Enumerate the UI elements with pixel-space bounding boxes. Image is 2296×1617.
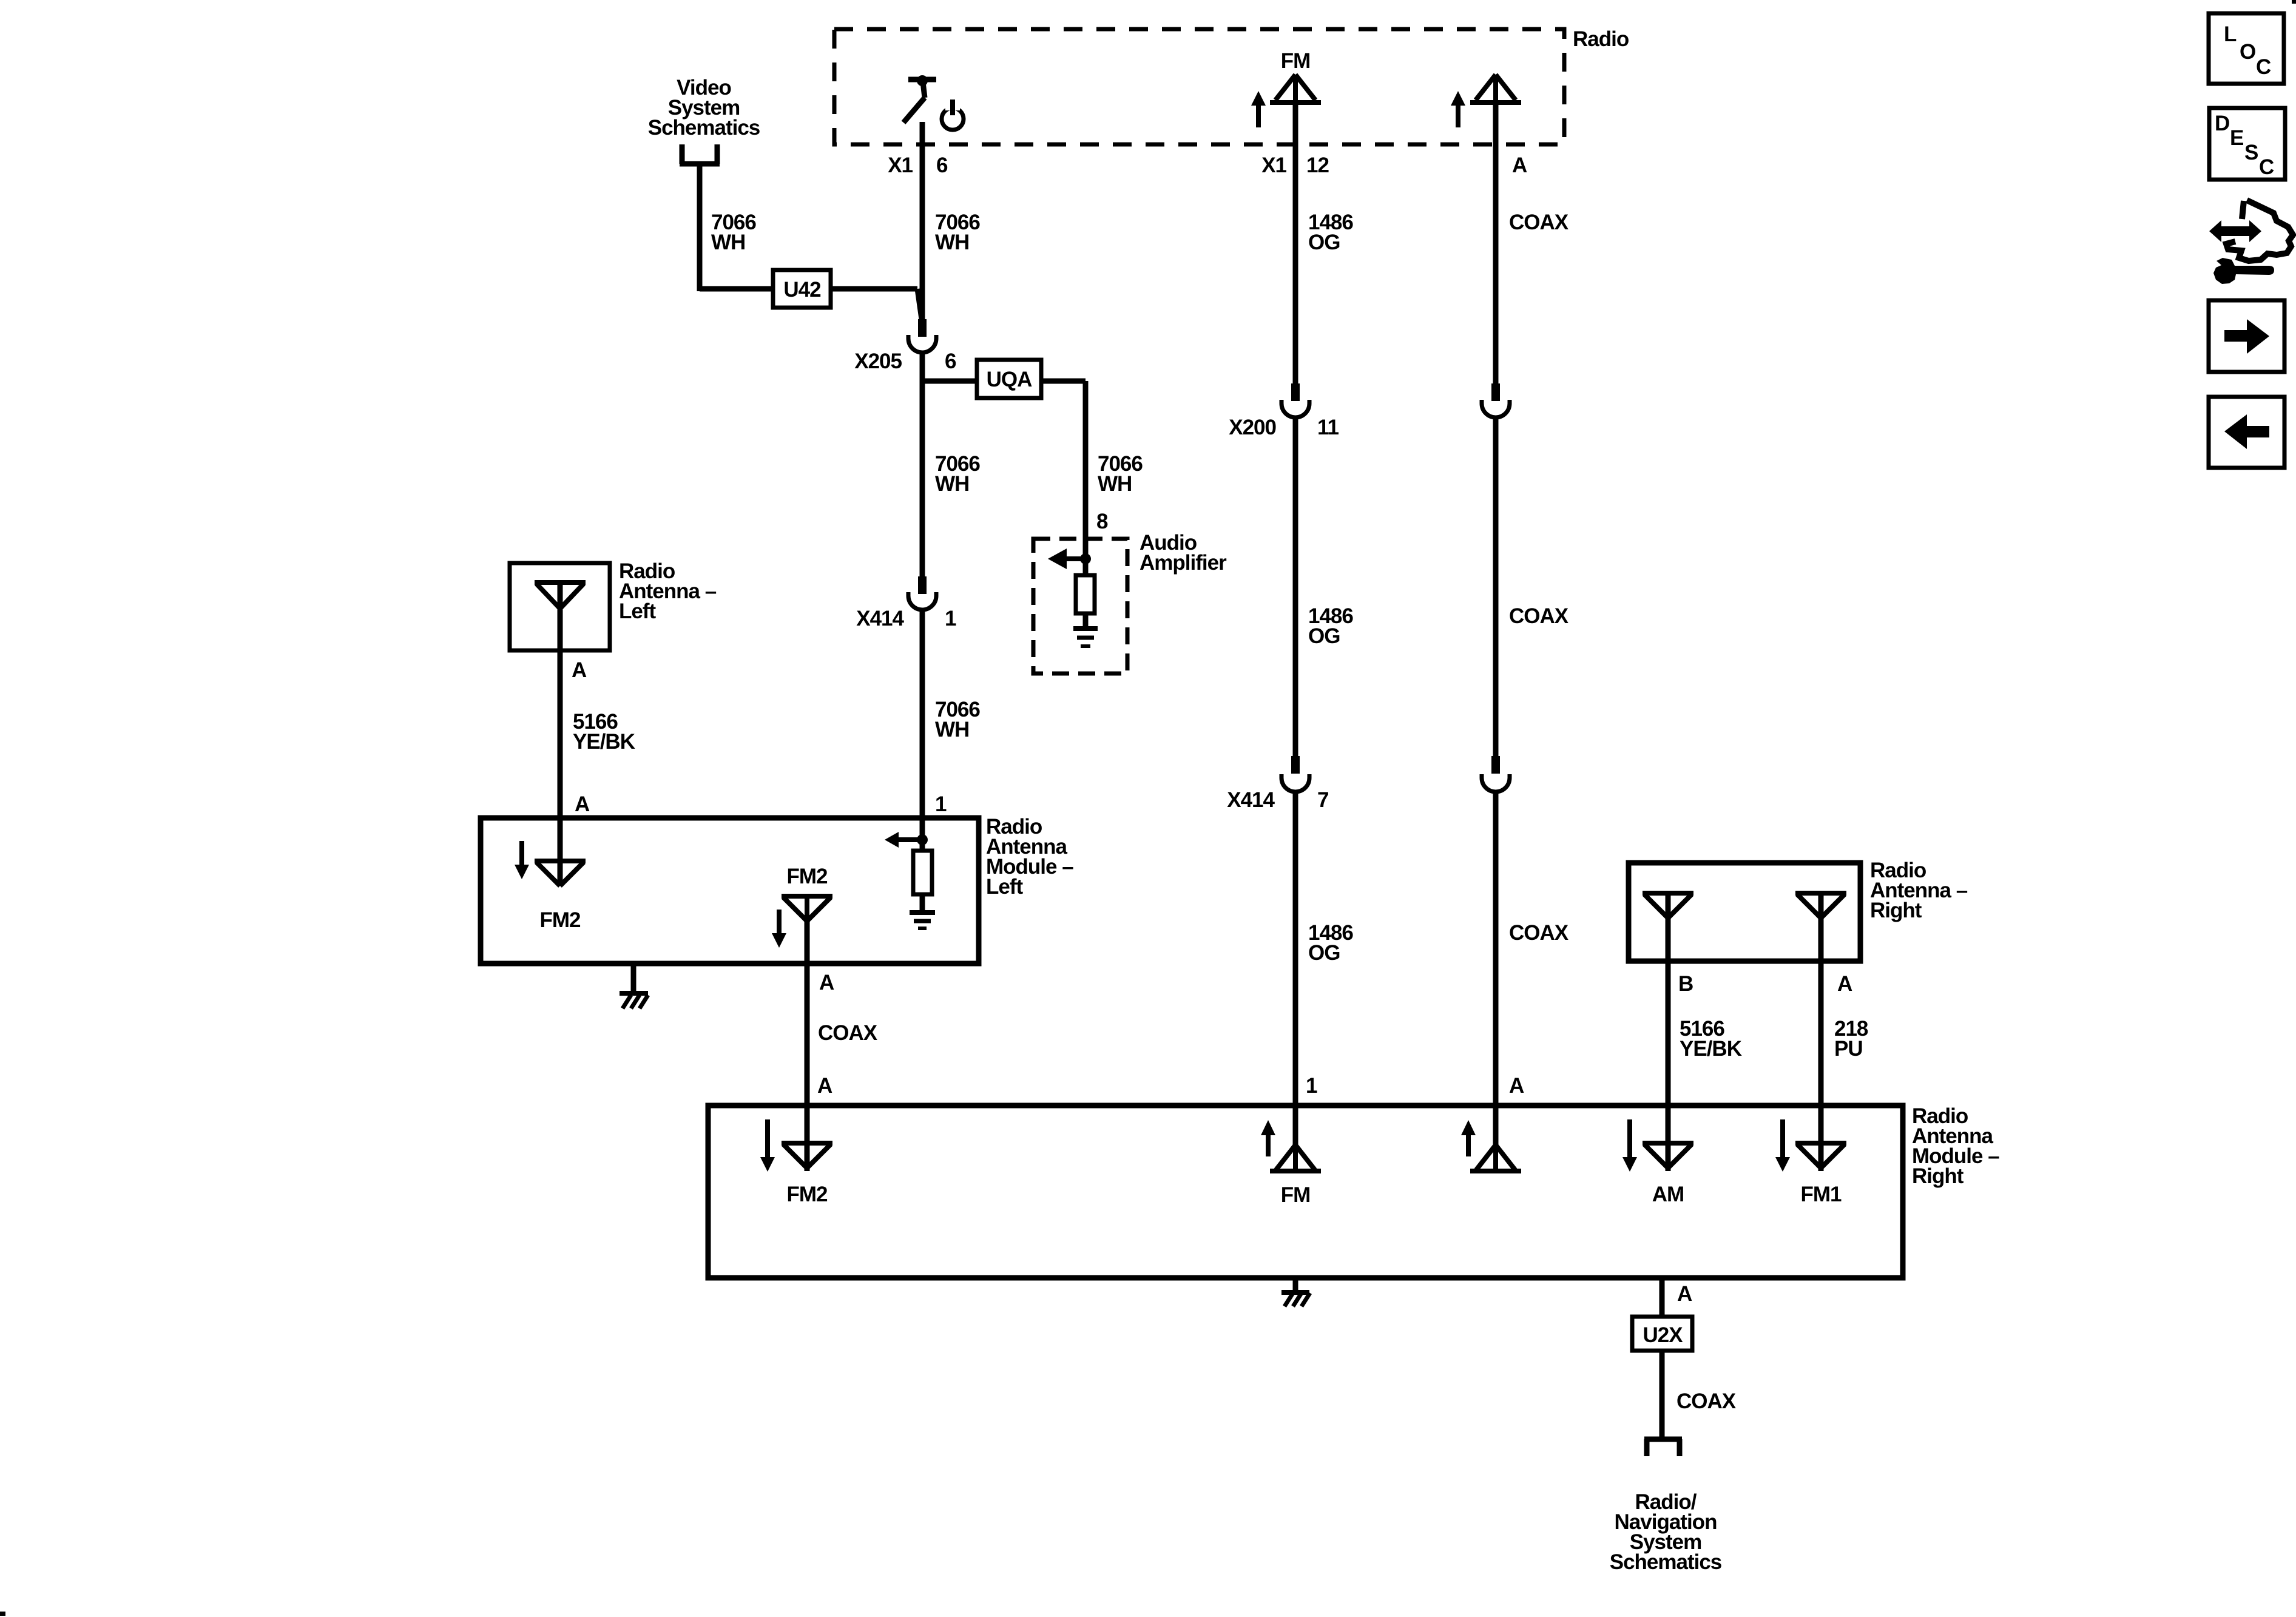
svg-text:X1: X1 [1261,154,1286,177]
page mark bottom left [0,1612,5,1616]
switch S1 (power) in Radio [903,75,936,123]
svg-text:WH: WH [935,231,969,254]
Radio Antenna Module - Right box [708,1104,1999,1278]
antenna FM1 (module right, down) [1795,1103,1846,1206]
svg-text:WH: WH [935,718,969,741]
ground (module left) [910,913,935,928]
svg-text:7: 7 [1317,788,1328,812]
svg-text:COAX: COAX [818,1021,878,1045]
Radio Antenna - Left box [510,559,717,650]
arrow down (module left FM2 out) [772,910,786,948]
DESC nav box [2209,108,2285,180]
Video System Schematics off-page connector [648,76,760,164]
svg-text:COAX: COAX [1676,1389,1737,1413]
chassis ground (module right) [1281,1278,1310,1306]
wire branch to UQA [922,379,977,384]
antenna (left, down-Y) [535,582,586,650]
pin A (coax radio) [1512,154,1527,177]
arrow down (module left FM2 in) [515,841,529,879]
arrow left (amp) [1048,549,1086,569]
wire 5166 YE/BK (left antenna to module) [560,650,635,815]
svg-text:FM1: FM1 [1801,1183,1842,1206]
connector X414 pin 1 [856,576,956,630]
svg-text:X1: X1 [888,154,913,177]
svg-text:U2X: U2X [1643,1323,1683,1347]
arrow up (module right FM) [1261,1120,1275,1156]
svg-text:S: S [2244,141,2258,164]
arrow down (module right FM1) [1775,1119,1790,1172]
connector X200 pin 11 [1229,383,1339,439]
svg-text:Schematics: Schematics [648,116,760,140]
svg-text:FM: FM [1281,49,1311,73]
wire 5166 YE/BK (right) [1668,962,1742,1103]
svg-text:OG: OG [1308,231,1340,254]
pin 1 (module left) [935,792,947,816]
svg-text:FM: FM [1281,1183,1311,1207]
wire 7066 WH (video to U42) [700,164,773,291]
svg-text:A: A [572,658,587,682]
svg-text:UQA: UQA [987,368,1033,391]
svg-text:OG: OG [1308,624,1340,648]
svg-text:1: 1 [935,792,947,816]
chassis ground (module left) [620,962,648,1008]
svg-text:WH: WH [1098,472,1132,496]
antenna coax A (module right, up) [1470,1103,1521,1171]
antenna right B (down-Y) [1643,893,1693,962]
wire 7066 WH (switch to X205) [922,122,980,320]
svg-text:Left: Left [619,599,657,623]
svg-text:PU: PU [1834,1037,1863,1061]
antenna FM2 output (module left) [782,865,832,921]
svg-text:A: A [819,971,834,994]
wire COAX (U2X to nav) [1662,1351,1737,1439]
wire X205 to X414 [922,353,980,576]
svg-text:E: E [2230,126,2243,150]
Audio Amplifier dashed box [1033,531,1227,673]
wire 1486 OG (X200 to X414) [1295,417,1353,756]
svg-text:L: L [2224,22,2237,46]
pin X1 6 [888,154,948,177]
wrench icon [2213,258,2274,284]
svg-text:1: 1 [945,607,956,630]
svg-text:X200: X200 [1229,416,1276,439]
svg-text:A: A [1512,154,1527,177]
node (module left pin 1) [917,815,928,851]
svg-text:FM2: FM2 [787,865,828,888]
wire COAX (module left to module right) [807,921,878,1103]
pin A (module right FM2) [817,1074,832,1098]
antenna AM (module right, down) [1643,1103,1693,1206]
svg-text:AM: AM [1652,1183,1684,1206]
arrow left (module left) [885,832,922,848]
Radio Antenna Module - Left box [481,815,1073,964]
svg-text:B: B [1678,972,1693,996]
inline harness UQA [977,360,1041,398]
resistor (module left) [913,851,932,910]
arrow down (module right FM2) [760,1119,775,1172]
LOC nav box [2209,13,2284,84]
antenna FM (module right, up) [1270,1103,1321,1207]
wire (module right to U2X) [1660,1278,1665,1317]
wire 218 PU [1821,962,1868,1103]
svg-text:A: A [817,1074,832,1098]
pin 8 (audio amplifier) [1096,510,1108,533]
svg-text:FM2: FM2 [540,908,581,932]
connector X205 pin 6 [854,319,956,373]
svg-text:D: D [2215,112,2229,135]
pin A (module right coax) [1509,1074,1524,1098]
wire 1486 OG (radio to X200) [1295,103,1353,383]
svg-text:Right: Right [1912,1164,1964,1188]
svg-text:WH: WH [711,231,745,254]
svg-text:Right: Right [1870,899,1922,922]
antenna right A (down-Y) [1795,893,1846,962]
wire 7066 WH (UQA to audio amplifier) [1041,381,1143,559]
wire 7066 WH (X414 to module left) [922,610,980,815]
Radio/Navigation off-page connector [1610,1439,1722,1574]
connector (coax upper) [1482,383,1510,417]
arrow up (radio coax) [1451,91,1465,127]
power icon [942,100,964,130]
svg-text:X205: X205 [854,349,902,373]
svg-text:C: C [2256,55,2271,79]
antenna FM2 input (module left) [535,815,586,932]
wire 1486 OG (X414 to module right) [1295,792,1353,1103]
node (amp junction) [1080,553,1091,564]
pin B / pin A (right antenna) [1678,972,1852,996]
svg-text:C: C [2259,155,2274,179]
svg-text:COAX: COAX [1509,921,1569,945]
pin A (module left FM2 in) [575,792,590,816]
svg-text:8: 8 [1096,510,1108,533]
arrow up (module right coax) [1461,1120,1476,1156]
svg-text:YE/BK: YE/BK [573,730,635,754]
svg-text:A: A [1677,1282,1692,1306]
svg-text:X414: X414 [856,607,904,630]
svg-text:COAX: COAX [1509,604,1569,628]
antenna FM (radio, up) [1270,49,1321,144]
svg-text:Left: Left [986,875,1024,899]
antenna FM2 (module right, down) [782,1103,832,1206]
svg-text:1: 1 [1306,1074,1317,1098]
wire COAX (to module right) [1496,792,1569,1103]
resistor (amp) [1076,559,1095,627]
arrow up (radio FM) [1251,91,1266,127]
wire COAX (mid) [1496,417,1569,756]
arrow down (module right AM) [1622,1119,1637,1172]
Radio dashed box [834,27,1629,144]
pin X1 12 [1261,154,1329,177]
svg-text:COAX: COAX [1509,211,1569,234]
connector X414 pin 7 [1227,756,1328,812]
svg-text:FM2: FM2 [787,1183,828,1206]
svg-text:12: 12 [1306,154,1329,177]
inline harness U2X [1632,1317,1692,1351]
forward arrow nav box [2209,300,2284,372]
wire COAX (radio to connector) [1496,103,1569,383]
svg-text:WH: WH [935,472,969,496]
pin A (U2X) [1677,1282,1692,1306]
back arrow nav box [2209,397,2284,468]
pin A (left antenna) [572,658,587,682]
svg-text:11: 11 [1317,416,1339,439]
hand double-arrow icon [2209,200,2293,261]
svg-text:OG: OG [1308,941,1340,965]
svg-text:6: 6 [945,349,956,373]
svg-text:U42: U42 [783,278,821,302]
connector (coax lower) [1482,756,1510,792]
ground (amp) [1073,629,1098,646]
pin 1 (module right FM) [1306,1074,1317,1098]
pin A (module left FM2 out) [819,971,834,994]
svg-text:YE/BK: YE/BK [1680,1037,1742,1061]
svg-text:O: O [2240,40,2255,64]
antenna (radio, up, coax) [1470,75,1521,144]
wire U42 to node [831,289,922,319]
svg-text:A: A [1837,972,1852,996]
svg-text:A: A [1509,1074,1524,1098]
svg-text:Amplifier: Amplifier [1140,551,1227,575]
svg-text:Schematics: Schematics [1610,1550,1722,1574]
Radio Antenna - Right box [1629,859,1968,961]
svg-text:Radio: Radio [1573,27,1629,51]
svg-text:6: 6 [936,154,948,177]
inline harness U42 [773,270,831,308]
svg-text:A: A [575,792,590,816]
svg-text:X414: X414 [1227,788,1275,812]
page mark top right [2292,0,2296,4]
